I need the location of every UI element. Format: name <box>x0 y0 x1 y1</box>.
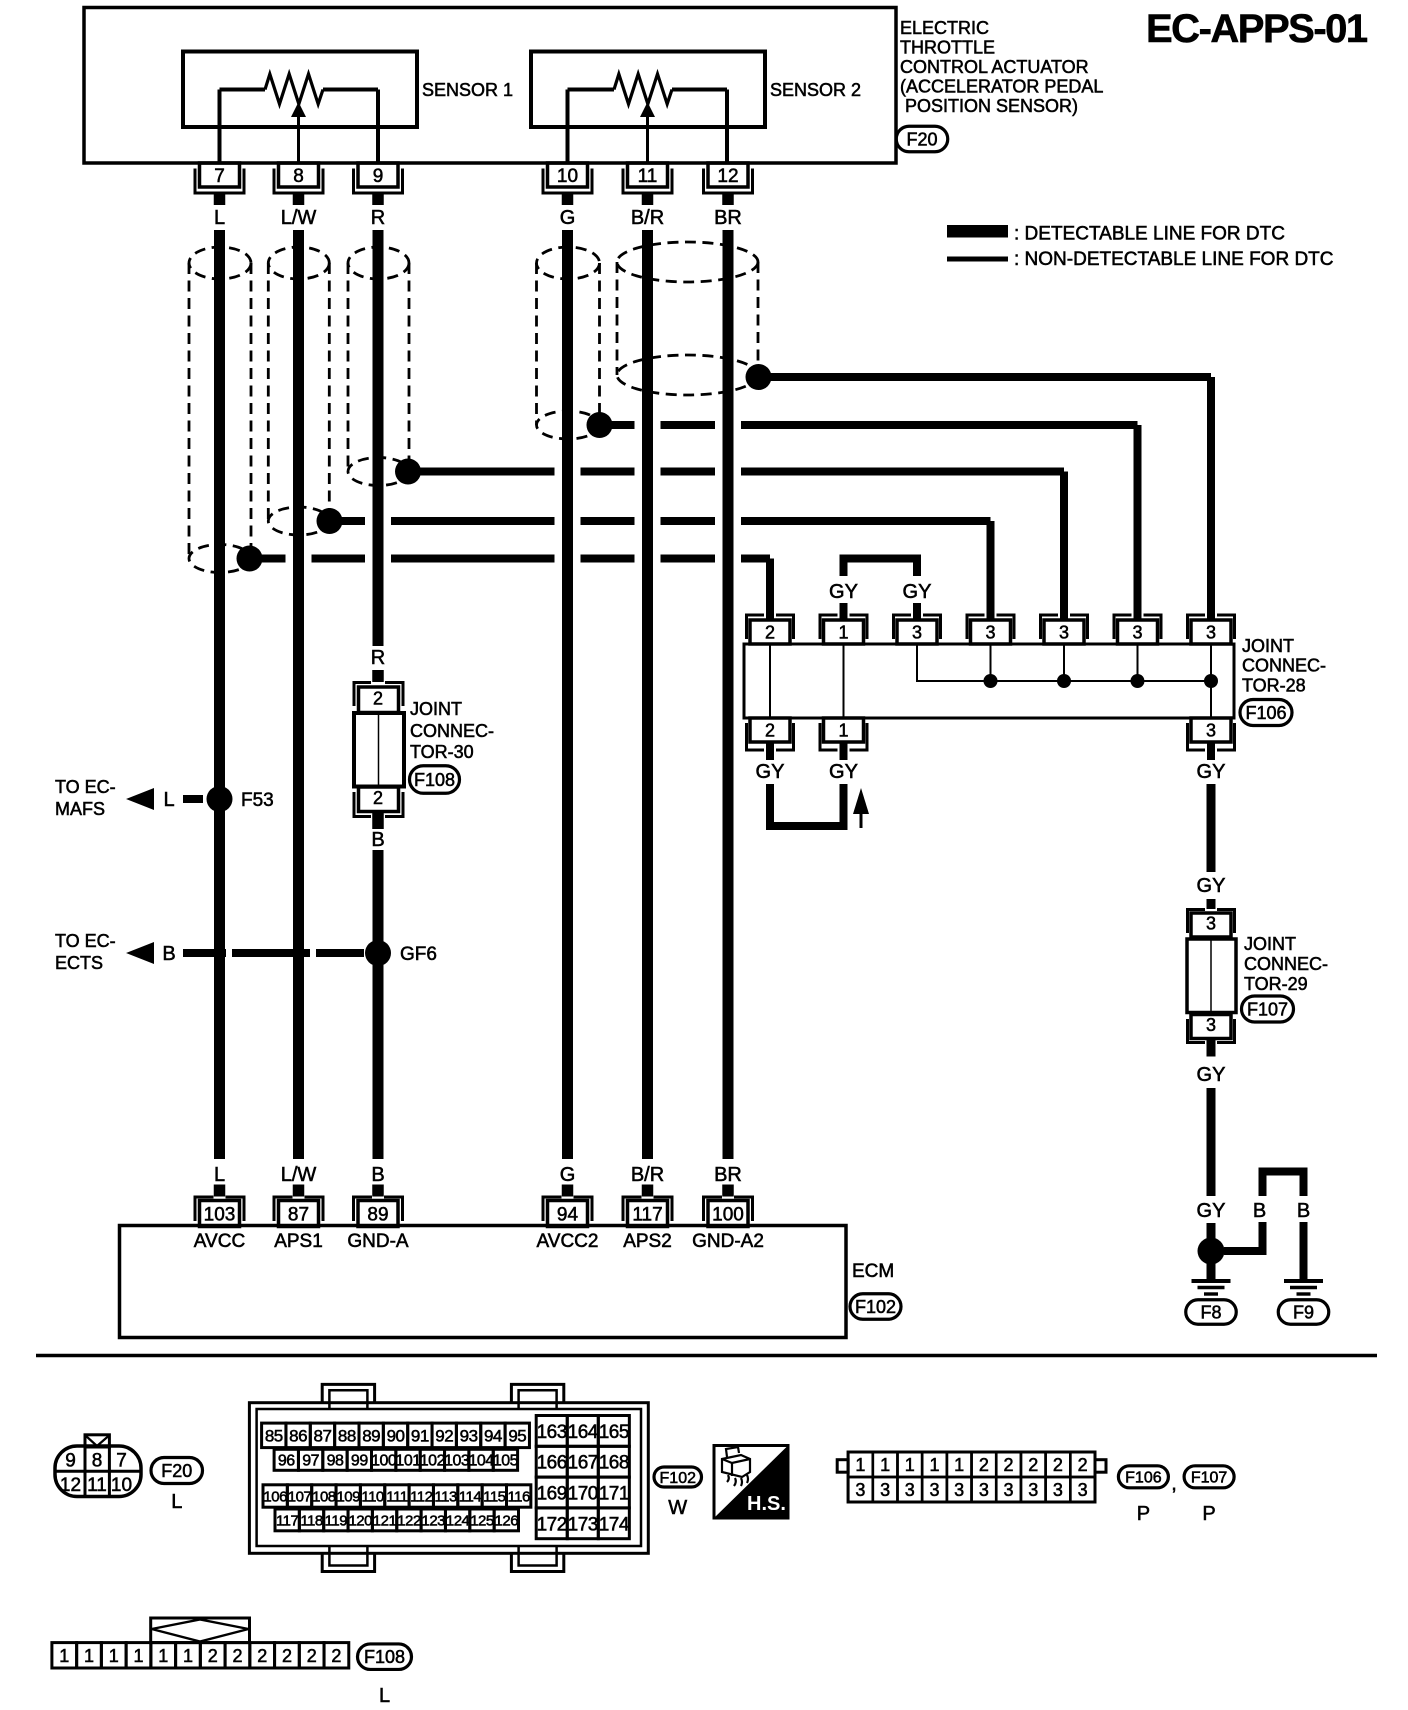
svg-text:165: 165 <box>599 1422 629 1443</box>
wire B (joint connector 30 to ECM89) <box>373 850 384 1159</box>
svg-text:3: 3 <box>1206 1015 1216 1035</box>
shield cylinder around wires B/R and BR <box>617 242 758 395</box>
svg-text:123: 123 <box>422 1512 446 1529</box>
JC28 internal bus <box>917 644 1211 718</box>
junction dot shield R <box>395 459 421 485</box>
JC28 top pin 1 <box>819 615 869 645</box>
svg-text:GY: GY <box>1197 761 1226 783</box>
svg-text:88: 88 <box>338 1426 356 1445</box>
GY jumper JC28 bottom pins 2-1 <box>766 784 848 826</box>
svg-text:1: 1 <box>954 1455 964 1475</box>
svg-text:1: 1 <box>929 1455 939 1475</box>
svg-text:P: P <box>1202 1503 1215 1525</box>
svg-text:3: 3 <box>985 622 995 642</box>
ECM pin 117 <box>622 1185 674 1227</box>
svg-text:164: 164 <box>568 1422 599 1443</box>
ECM pin 100 <box>702 1185 754 1227</box>
svg-text:MAFS: MAFS <box>55 799 105 819</box>
shield cylinder around wire G <box>537 247 600 439</box>
wire BR (pin12 to ECM100) <box>723 230 734 1159</box>
arrow to EC-ECTS <box>126 942 154 964</box>
svg-text:98: 98 <box>327 1453 344 1470</box>
svg-text:F9: F9 <box>1293 1302 1314 1322</box>
connector ref F107 oval (face view) <box>1184 1466 1234 1488</box>
svg-text:APS2: APS2 <box>623 1231 672 1252</box>
connector ref F20 oval (face view) <box>151 1458 203 1484</box>
svg-text:G: G <box>560 1164 576 1186</box>
svg-text:2: 2 <box>979 1455 989 1475</box>
shield drain wire L-shield to JC28 pin2 <box>250 555 771 563</box>
svg-text:96: 96 <box>278 1453 295 1470</box>
ground ref F9 oval <box>1278 1300 1329 1325</box>
svg-text:120: 120 <box>348 1512 372 1529</box>
svg-text:2: 2 <box>257 1646 267 1666</box>
shield drain wire G-shield to JC28 pin3c <box>600 421 1138 429</box>
svg-text:3: 3 <box>979 1480 989 1500</box>
wire GY into JC29 <box>1207 899 1216 909</box>
svg-text:F107: F107 <box>1247 999 1288 1019</box>
svg-text:167: 167 <box>568 1453 598 1474</box>
svg-text:B: B <box>371 829 384 851</box>
label JOINT CONNECTOR-30 <box>410 699 494 762</box>
label TO EC-ECTS <box>55 931 116 973</box>
dashed tap wire to GF6 <box>183 949 364 957</box>
svg-text:2: 2 <box>373 689 383 709</box>
svg-text:125: 125 <box>470 1512 494 1529</box>
shield drain wire L/W-shield to JC28 pin3a <box>330 517 991 525</box>
module ref F102 oval <box>850 1294 901 1320</box>
svg-text:3: 3 <box>880 1480 890 1500</box>
svg-text:113: 113 <box>434 1488 457 1505</box>
label JOINT CONNECTOR-28 <box>1242 636 1326 696</box>
svg-text:TO EC-: TO EC- <box>55 931 116 951</box>
svg-text:115: 115 <box>483 1488 506 1505</box>
connector pin 11 (F20 terminal) <box>622 163 674 205</box>
svg-text:93: 93 <box>460 1426 478 1445</box>
junction dot shield G <box>587 412 613 438</box>
svg-text:119: 119 <box>325 1512 348 1529</box>
svg-text:GY: GY <box>756 761 785 783</box>
svg-text:1: 1 <box>838 720 848 740</box>
svg-text:GND-A: GND-A <box>347 1231 409 1252</box>
svg-text:10: 10 <box>111 1475 132 1496</box>
svg-text:B/R: B/R <box>631 207 664 229</box>
junction dot shield BR <box>746 364 772 390</box>
svg-text:CONNEC-: CONNEC- <box>410 721 494 741</box>
svg-text:91: 91 <box>411 1426 429 1445</box>
wire GY JC29 to ground junction <box>1207 1088 1216 1196</box>
svg-text:3: 3 <box>1206 720 1216 740</box>
legend detectable line <box>947 224 1285 245</box>
svg-text:H.S.: H.S. <box>747 1493 786 1515</box>
svg-text:107: 107 <box>288 1488 312 1505</box>
svg-text:117: 117 <box>276 1512 299 1529</box>
svg-text:1: 1 <box>59 1646 69 1666</box>
svg-text:126: 126 <box>495 1512 519 1529</box>
svg-text:R: R <box>371 207 385 229</box>
svg-text:1: 1 <box>880 1455 890 1475</box>
svg-text:3: 3 <box>954 1480 964 1500</box>
svg-text:B: B <box>162 943 175 965</box>
svg-text:CONTROL ACTUATOR: CONTROL ACTUATOR <box>900 57 1089 77</box>
wire G (pin10 to ECM94) <box>562 230 573 1159</box>
ECM pin 87 <box>273 1185 325 1227</box>
svg-text:L: L <box>163 789 174 811</box>
svg-text:2: 2 <box>1004 1455 1014 1475</box>
shield cylinder around wire R <box>348 247 409 486</box>
svg-text:100: 100 <box>371 1453 397 1470</box>
ground junction dot <box>1198 1238 1225 1265</box>
ETCA outer box (Electric Throttle Control Actuator) <box>84 8 896 164</box>
connector ref F108 oval <box>410 766 460 794</box>
svg-text:GY: GY <box>829 581 858 603</box>
joint connector 28 box <box>744 644 1234 718</box>
ECM pin 89 <box>352 1185 404 1227</box>
connector face view F108 <box>52 1618 349 1668</box>
ground symbol F9 <box>1284 1281 1323 1294</box>
JC28 bottom pin 1 <box>819 718 869 760</box>
arrow marker at JC28 bottom pin1 <box>853 788 869 828</box>
ground symbol F8 <box>1192 1281 1231 1294</box>
svg-text:1: 1 <box>183 1646 193 1666</box>
svg-text:SENSOR 2: SENSOR 2 <box>770 80 861 100</box>
svg-text:GF6: GF6 <box>400 944 437 965</box>
GY jumper bridge JC28 top pins 1-3 <box>840 555 922 621</box>
JC28 bus junction dot b <box>1057 674 1071 688</box>
svg-text:F106: F106 <box>1125 1470 1162 1487</box>
svg-text:11: 11 <box>87 1475 107 1496</box>
wire GY JC28 pin3 down <box>1207 784 1216 872</box>
svg-text:F102: F102 <box>855 1297 896 1317</box>
label JOINT CONNECTOR-29 <box>1244 934 1328 994</box>
splice dot F53 <box>207 786 233 812</box>
svg-text:163: 163 <box>537 1422 567 1443</box>
connector face view F20 <box>55 1435 141 1497</box>
svg-text:106: 106 <box>263 1488 287 1505</box>
svg-text:3: 3 <box>1078 1480 1088 1500</box>
wire R (pin9 to joint connector 30) <box>373 230 384 646</box>
svg-text:3: 3 <box>1059 622 1069 642</box>
svg-text:118: 118 <box>300 1512 323 1529</box>
svg-text:2: 2 <box>373 788 383 808</box>
svg-text:GY: GY <box>1197 1064 1226 1086</box>
svg-text:3: 3 <box>912 622 922 642</box>
svg-text:92: 92 <box>435 1426 453 1445</box>
svg-text:102: 102 <box>420 1453 446 1470</box>
svg-text:TO EC-: TO EC- <box>55 777 116 797</box>
shield cylinder around wire L <box>189 247 251 573</box>
svg-text:JOINT: JOINT <box>1242 636 1294 656</box>
svg-text:168: 168 <box>599 1453 629 1474</box>
svg-text:GY: GY <box>829 761 858 783</box>
svg-text:2: 2 <box>1028 1455 1038 1475</box>
svg-text:CONNEC-: CONNEC- <box>1244 954 1328 974</box>
connector pin 8 (F20 terminal) <box>273 163 325 205</box>
connector ref F106 oval <box>1240 700 1292 726</box>
svg-text:2: 2 <box>208 1646 218 1666</box>
junction dot shield L <box>237 546 263 572</box>
svg-text:F106: F106 <box>1245 703 1286 723</box>
svg-text:F108: F108 <box>414 770 455 790</box>
svg-text:B: B <box>371 1164 384 1186</box>
sensor 2 box <box>531 52 765 128</box>
JC28 internal column pin1 <box>843 644 845 718</box>
JC28 top pin 3 <box>1113 615 1163 645</box>
svg-text:B: B <box>1253 1200 1266 1222</box>
svg-text:3: 3 <box>905 1480 915 1500</box>
shield drain wire BR-shield to JC28 pin3d <box>759 373 1212 381</box>
svg-text:(ACCELERATOR PEDAL: (ACCELERATOR PEDAL <box>900 77 1103 97</box>
connector pin 10 (F20 terminal) <box>542 163 594 205</box>
JC28 top pin 2 <box>745 615 795 645</box>
connector face view F102 (ECM) <box>249 1384 648 1571</box>
svg-text:8: 8 <box>293 166 304 187</box>
svg-text:114: 114 <box>459 1488 482 1505</box>
svg-text:APS1: APS1 <box>274 1231 323 1252</box>
svg-text:89: 89 <box>367 1204 388 1225</box>
svg-text:90: 90 <box>387 1426 405 1445</box>
svg-text:1: 1 <box>855 1455 865 1475</box>
potentiometer SENSOR 2 <box>568 74 728 164</box>
svg-text:AVCC: AVCC <box>194 1231 245 1252</box>
svg-text:TOR-28: TOR-28 <box>1242 676 1306 696</box>
svg-text:172: 172 <box>537 1514 567 1535</box>
svg-text:B/R: B/R <box>631 1164 664 1186</box>
svg-text:101: 101 <box>395 1453 421 1470</box>
svg-text:11: 11 <box>638 166 658 187</box>
svg-text:R: R <box>371 647 385 669</box>
svg-text:2: 2 <box>1053 1455 1063 1475</box>
svg-text:1: 1 <box>838 622 848 642</box>
jumper wire B to ground F9 <box>1224 1168 1308 1281</box>
svg-text:BR: BR <box>714 207 742 229</box>
svg-text:1: 1 <box>84 1646 94 1666</box>
svg-text:8: 8 <box>92 1451 103 1472</box>
JC28 bus junction dot c <box>1131 674 1145 688</box>
svg-text:L: L <box>171 1491 182 1513</box>
svg-text:G: G <box>560 207 576 229</box>
svg-text:169: 169 <box>537 1484 567 1505</box>
svg-text:L: L <box>214 207 225 229</box>
svg-text:2: 2 <box>331 1646 341 1666</box>
wire L (pin7 to ECM103) <box>214 230 225 1159</box>
svg-text:TOR-30: TOR-30 <box>410 742 474 762</box>
svg-text:JOINT: JOINT <box>1244 934 1296 954</box>
svg-text:97: 97 <box>302 1453 319 1470</box>
svg-text:3: 3 <box>1132 622 1142 642</box>
svg-text:: NON-DETECTABLE LINE FOR DTC: : NON-DETECTABLE LINE FOR DTC <box>1014 249 1334 270</box>
splice dot GF6 <box>365 940 391 966</box>
svg-text:ECTS: ECTS <box>55 953 103 973</box>
svg-text:L/W: L/W <box>281 1164 317 1186</box>
svg-text:166: 166 <box>537 1453 567 1474</box>
svg-text:87: 87 <box>314 1426 332 1445</box>
svg-text:122: 122 <box>397 1512 421 1529</box>
svg-text:,: , <box>1171 1473 1177 1495</box>
svg-text:3: 3 <box>1206 914 1216 934</box>
joint connector 29 (F107) <box>1186 909 1236 1057</box>
svg-text:2: 2 <box>232 1646 242 1666</box>
svg-text:103: 103 <box>204 1204 236 1225</box>
svg-text:94: 94 <box>484 1426 502 1445</box>
potentiometer SENSOR 1 <box>220 74 379 164</box>
connector ref F20 oval <box>896 126 948 152</box>
svg-text:108: 108 <box>312 1488 336 1505</box>
JC28 internal column pin2 <box>769 644 771 718</box>
JC28 bottom pin 2 <box>745 718 795 760</box>
svg-text:ELECTRIC: ELECTRIC <box>900 18 989 38</box>
legend non-detectable line <box>947 249 1334 270</box>
svg-text:GY: GY <box>1197 1200 1226 1222</box>
svg-text:ECM: ECM <box>852 1261 894 1282</box>
connector pin 12 (F20 terminal) <box>702 163 754 205</box>
svg-text:7: 7 <box>214 166 225 187</box>
svg-text:3: 3 <box>1004 1480 1014 1500</box>
ground ref F8 oval <box>1186 1300 1237 1325</box>
svg-text:89: 89 <box>362 1426 380 1445</box>
svg-text:2: 2 <box>307 1646 317 1666</box>
svg-text:CONNEC-: CONNEC- <box>1242 656 1326 676</box>
label TO EC-MAFS <box>55 777 116 819</box>
svg-text:F108: F108 <box>364 1647 405 1667</box>
JC28 bottom pin 3 <box>1186 718 1236 760</box>
svg-text:F20: F20 <box>906 129 937 149</box>
svg-text:110: 110 <box>361 1488 384 1505</box>
svg-text:GY: GY <box>903 581 932 603</box>
svg-text:174: 174 <box>599 1514 630 1535</box>
H.S. harness connector icon <box>714 1446 788 1519</box>
svg-text:12: 12 <box>60 1475 81 1496</box>
svg-text:THROTTLE: THROTTLE <box>900 38 995 58</box>
svg-text:B: B <box>1297 1200 1310 1222</box>
ECM pin 103 <box>194 1185 246 1227</box>
svg-text:12: 12 <box>717 166 738 187</box>
svg-text:173: 173 <box>568 1514 598 1535</box>
svg-text:W: W <box>668 1497 687 1519</box>
svg-text:95: 95 <box>508 1426 526 1445</box>
svg-text:1: 1 <box>109 1646 119 1666</box>
ECM pin 94 <box>542 1185 594 1227</box>
svg-text:3: 3 <box>929 1480 939 1500</box>
svg-text:JOINT: JOINT <box>410 699 462 719</box>
svg-text:116: 116 <box>507 1488 530 1505</box>
arrow to EC-MAFS <box>126 788 154 810</box>
connector pin 7 (F20 terminal) <box>194 163 246 205</box>
svg-text:2: 2 <box>765 622 775 642</box>
svg-text:112: 112 <box>410 1488 433 1505</box>
svg-text:87: 87 <box>288 1204 309 1225</box>
svg-text:103: 103 <box>444 1453 470 1470</box>
shield cylinder around wire L/W <box>268 247 329 535</box>
svg-text:121: 121 <box>373 1512 397 1529</box>
JC28 bus junction dot a <box>984 674 998 688</box>
connector ref F106 oval (face view) <box>1118 1466 1168 1488</box>
svg-text:EC-APPS-01: EC-APPS-01 <box>1146 7 1368 51</box>
svg-text:GND-A2: GND-A2 <box>692 1231 764 1252</box>
svg-text:171: 171 <box>599 1484 629 1505</box>
svg-text:100: 100 <box>712 1204 744 1225</box>
svg-text:170: 170 <box>568 1484 598 1505</box>
svg-text:F8: F8 <box>1200 1302 1221 1322</box>
svg-text:L/W: L/W <box>281 207 317 229</box>
shield drain wire R-shield to JC28 pin3b <box>408 468 1064 476</box>
svg-text:: DETECTABLE LINE FOR DTC: : DETECTABLE LINE FOR DTC <box>1014 224 1285 245</box>
svg-text:86: 86 <box>289 1426 307 1445</box>
svg-text:POSITION SENSOR): POSITION SENSOR) <box>905 96 1078 116</box>
junction dot shield L/W <box>317 508 343 534</box>
svg-text:9: 9 <box>373 166 384 187</box>
svg-text:94: 94 <box>557 1204 579 1225</box>
svg-text:3: 3 <box>1028 1480 1038 1500</box>
svg-text:117: 117 <box>632 1204 662 1225</box>
svg-text:1: 1 <box>134 1646 144 1666</box>
svg-text:AVCC2: AVCC2 <box>537 1231 599 1252</box>
JC28 top pin 3 <box>966 615 1016 645</box>
svg-text:3: 3 <box>1053 1480 1063 1500</box>
wire L/W (pin8 to ECM87) <box>293 230 304 1159</box>
separator line <box>36 1354 1377 1358</box>
svg-text:2: 2 <box>282 1646 292 1666</box>
svg-text:104: 104 <box>468 1453 494 1470</box>
svg-text:99: 99 <box>351 1453 368 1470</box>
svg-text:L: L <box>214 1164 225 1186</box>
svg-text:L: L <box>379 1685 390 1707</box>
JC28 top pin 3 <box>1039 615 1089 645</box>
svg-text:F102: F102 <box>660 1470 697 1487</box>
joint connector 30 (F108) <box>353 670 405 829</box>
ECM box <box>120 1226 847 1338</box>
svg-text:124: 124 <box>446 1512 470 1529</box>
svg-text:7: 7 <box>116 1451 127 1472</box>
dashed tap wire to F53 <box>183 795 203 803</box>
JC28 bus junction dot d <box>1204 674 1218 688</box>
svg-text:F53: F53 <box>241 790 274 811</box>
svg-text:P: P <box>1137 1503 1150 1525</box>
connector ref F102 oval (face view) <box>654 1467 702 1487</box>
svg-text:9: 9 <box>65 1451 76 1472</box>
connector ref F108 oval (face view) <box>358 1644 412 1670</box>
svg-text:1: 1 <box>905 1455 915 1475</box>
svg-text:105: 105 <box>493 1453 519 1470</box>
svg-text:109: 109 <box>336 1488 360 1505</box>
JC28 top pin 3 <box>1186 615 1236 645</box>
svg-text:10: 10 <box>557 166 578 187</box>
svg-text:F20: F20 <box>161 1461 192 1481</box>
svg-text:3: 3 <box>855 1480 865 1500</box>
svg-text:2: 2 <box>765 720 775 740</box>
svg-text:BR: BR <box>714 1164 742 1186</box>
svg-text:2: 2 <box>1078 1455 1088 1475</box>
svg-text:GY: GY <box>1197 875 1226 897</box>
connector pin 9 (F20 terminal) <box>352 163 404 205</box>
connector ref F107 oval <box>1242 996 1294 1022</box>
svg-text:TOR-29: TOR-29 <box>1244 974 1308 994</box>
svg-text:F107: F107 <box>1191 1470 1228 1487</box>
svg-text:111: 111 <box>386 1488 407 1505</box>
svg-text:85: 85 <box>265 1426 283 1445</box>
wire B/R (pin11 to ECM117) <box>642 230 653 1159</box>
JC28 top pin 3 <box>892 615 942 645</box>
svg-text:3: 3 <box>1206 622 1216 642</box>
svg-text:SENSOR 1: SENSOR 1 <box>422 80 513 100</box>
connector face view F106/F107 <box>837 1452 1106 1502</box>
sensor 1 box <box>183 52 417 128</box>
svg-text:1: 1 <box>158 1646 168 1666</box>
